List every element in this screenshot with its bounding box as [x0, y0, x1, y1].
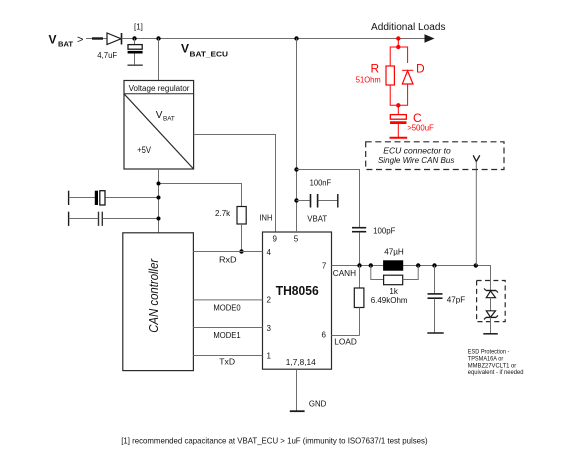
wire red branch frame — [390, 47, 407, 105]
junction cap1 on +5V — [157, 196, 161, 200]
svg-text:INH: INH — [259, 213, 272, 223]
wire red tap down — [397, 39, 399, 48]
wire 100pF branch — [297, 170, 360, 228]
ESD dashed box — [477, 281, 506, 322]
svg-text:D: D — [416, 62, 425, 76]
junction red top — [396, 45, 400, 49]
capacitor decoupling bottom — [69, 212, 159, 226]
junction +5V 2.7k branch — [157, 182, 161, 186]
svg-text:MODE0: MODE0 — [213, 302, 241, 312]
svg-text:+5V: +5V — [137, 145, 151, 155]
junction rail to TH8056 VBAT pin — [294, 36, 298, 40]
wire VBAT_ECU rail — [122, 38, 426, 40]
svg-text:BAT: BAT — [58, 40, 73, 49]
svg-text:5: 5 — [294, 235, 299, 244]
svg-text:4,7uF: 4,7uF — [97, 51, 117, 60]
svg-text:GND: GND — [309, 399, 326, 409]
svg-text:9: 9 — [273, 235, 278, 244]
wire 2.7k to RxD — [241, 224, 243, 252]
terminal bar under ESD — [483, 333, 498, 335]
junction CANH 47pF — [432, 263, 436, 267]
capacitor 100pF — [352, 228, 366, 266]
ground GND — [290, 410, 305, 412]
wire VBAT input — [86, 38, 107, 40]
resistor 2.7k — [237, 207, 246, 225]
capacitor 100nF — [297, 194, 338, 208]
junction VBAT 100pF branch — [294, 167, 298, 171]
wire regulator +5V down — [158, 169, 160, 233]
svg-text:equivalent - if needed: equivalent - if needed — [468, 369, 524, 376]
svg-text:Additional Loads: Additional Loads — [371, 22, 446, 33]
svg-text:51Ohm: 51Ohm — [356, 75, 381, 84]
svg-text:BAT_ECU: BAT_ECU — [190, 50, 229, 59]
svg-text:100nF: 100nF — [310, 179, 332, 188]
wire +5V branch to 2.7k — [159, 184, 242, 207]
connector Y to bus — [473, 155, 480, 265]
junction cap2 on +5V — [157, 217, 161, 221]
wire 1k parallel branch — [371, 266, 384, 280]
svg-text:7: 7 — [322, 262, 327, 271]
label ESD protection — [468, 348, 524, 376]
svg-text:>: > — [77, 34, 83, 46]
capacitor C >500uF — [390, 105, 407, 137]
svg-text:Single Wire CAN Bus: Single Wire CAN Bus — [378, 155, 455, 165]
resistor R 51Ohm — [386, 66, 394, 85]
wire GND pin — [296, 369, 298, 411]
wire MODE0 — [193, 299, 262, 301]
svg-text:[1] recommended capacitance at: [1] recommended capacitance at VBAT_ECU … — [121, 437, 428, 446]
CAN controller box — [123, 233, 194, 371]
svg-text:TH8056: TH8056 — [276, 284, 319, 298]
svg-text:R: R — [371, 62, 380, 76]
wire 1k branch right — [403, 266, 419, 280]
voltage regulator U2 — [124, 81, 194, 170]
node VBAT_ECU label — [181, 42, 228, 59]
svg-text:2: 2 — [267, 296, 272, 305]
junction 2.7k on RxD — [239, 249, 243, 253]
svg-text:RxD: RxD — [219, 254, 237, 264]
svg-text:6: 6 — [322, 331, 327, 340]
svg-text:LOAD: LOAD — [334, 338, 357, 347]
junction red bottom — [396, 103, 400, 107]
svg-text:1: 1 — [267, 352, 272, 361]
svg-text:TxD: TxD — [219, 357, 235, 367]
wire VBAT pin 5 — [296, 39, 298, 233]
junction CANH 1k left — [369, 263, 373, 267]
svg-text:1,7,8,14: 1,7,8,14 — [286, 357, 316, 367]
svg-text:BAT: BAT — [163, 115, 175, 122]
junction on rail at diode output — [132, 36, 136, 40]
ECU connector dashed box — [366, 142, 504, 170]
junction CANH 1k right — [416, 263, 420, 267]
inductor 47uH — [384, 261, 403, 270]
wire CANH — [332, 266, 491, 291]
svg-text:2.7k: 2.7k — [215, 209, 231, 218]
svg-text:1k: 1k — [389, 287, 398, 296]
svg-text:ESD Protection -: ESD Protection - — [468, 348, 510, 355]
svg-text:VBAT: VBAT — [307, 214, 327, 223]
svg-text:>500uF: >500uF — [407, 123, 434, 132]
zener ESD bottom — [484, 311, 498, 334]
svg-text:[1]: [1] — [134, 23, 143, 32]
wire MODE1 — [193, 327, 262, 329]
junction CANH 100pF/6.49k — [357, 263, 361, 267]
wire TxD — [193, 355, 262, 357]
svg-text:47µH: 47µH — [384, 247, 404, 256]
svg-text:47pF: 47pF — [447, 295, 466, 305]
wire LOAD — [332, 335, 360, 337]
svg-text:V: V — [156, 110, 163, 121]
wire RxD — [193, 251, 262, 253]
junction rail to regulator — [156, 36, 160, 40]
wire INH from regulator — [194, 135, 276, 233]
resistor 6.49kOhm load — [354, 266, 364, 336]
diode series battery — [107, 33, 122, 45]
svg-text:MODE1: MODE1 — [213, 330, 241, 340]
diode D freewheel — [402, 70, 413, 90]
wire rail to voltage regulator — [158, 39, 160, 81]
svg-text:3: 3 — [267, 324, 272, 333]
svg-text:100pF: 100pF — [373, 227, 395, 236]
capacitor 47pF — [427, 266, 443, 334]
IC TH8056 — [263, 232, 332, 369]
arrow Additional Loads — [425, 34, 435, 43]
ground under 4.7uF — [128, 64, 143, 66]
svg-text:Voltage regulator: Voltage regulator — [129, 84, 190, 93]
junction CANH connector — [474, 263, 478, 267]
zener ESD top — [484, 289, 498, 311]
resistor 1k — [384, 275, 403, 285]
svg-text:4: 4 — [267, 248, 272, 257]
junction VBAT 100nF branch — [294, 198, 298, 202]
capacitor 4.7uF — [128, 39, 143, 66]
svg-text:V: V — [181, 42, 189, 56]
svg-text:6.49kOhm: 6.49kOhm — [371, 296, 408, 305]
junction rail red loads tap — [396, 36, 400, 40]
capacitor decoupling top — [69, 191, 159, 205]
svg-text:V: V — [49, 33, 57, 47]
svg-text:CANH: CANH — [333, 269, 356, 278]
node VBAT label — [49, 33, 84, 49]
svg-text:CAN controller: CAN controller — [146, 258, 161, 333]
ground red under C — [390, 137, 408, 139]
